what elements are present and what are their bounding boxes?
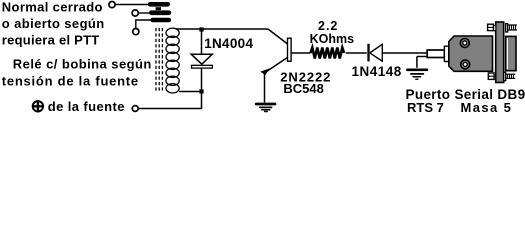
svg-text:de la fuente: de la fuente xyxy=(48,99,125,114)
svg-text:KOhms: KOhms xyxy=(310,32,355,46)
svg-text:1N4148: 1N4148 xyxy=(352,64,402,79)
svg-text:Normal cerrado: Normal cerrado xyxy=(2,0,103,15)
svg-text:RTS 7: RTS 7 xyxy=(407,100,444,115)
svg-text:1N4004: 1N4004 xyxy=(204,36,253,51)
svg-text:Relé c/ bobina según: Relé c/ bobina según xyxy=(13,57,152,72)
svg-text:BC548: BC548 xyxy=(283,81,323,96)
svg-text:Masa 5: Masa 5 xyxy=(461,100,513,115)
svg-text:o abierto según: o abierto según xyxy=(2,16,105,31)
svg-text:tensión de la fuente: tensión de la fuente xyxy=(2,74,139,89)
svg-text:2.2: 2.2 xyxy=(318,19,338,33)
svg-text:requiera el PTT: requiera el PTT xyxy=(2,33,100,48)
